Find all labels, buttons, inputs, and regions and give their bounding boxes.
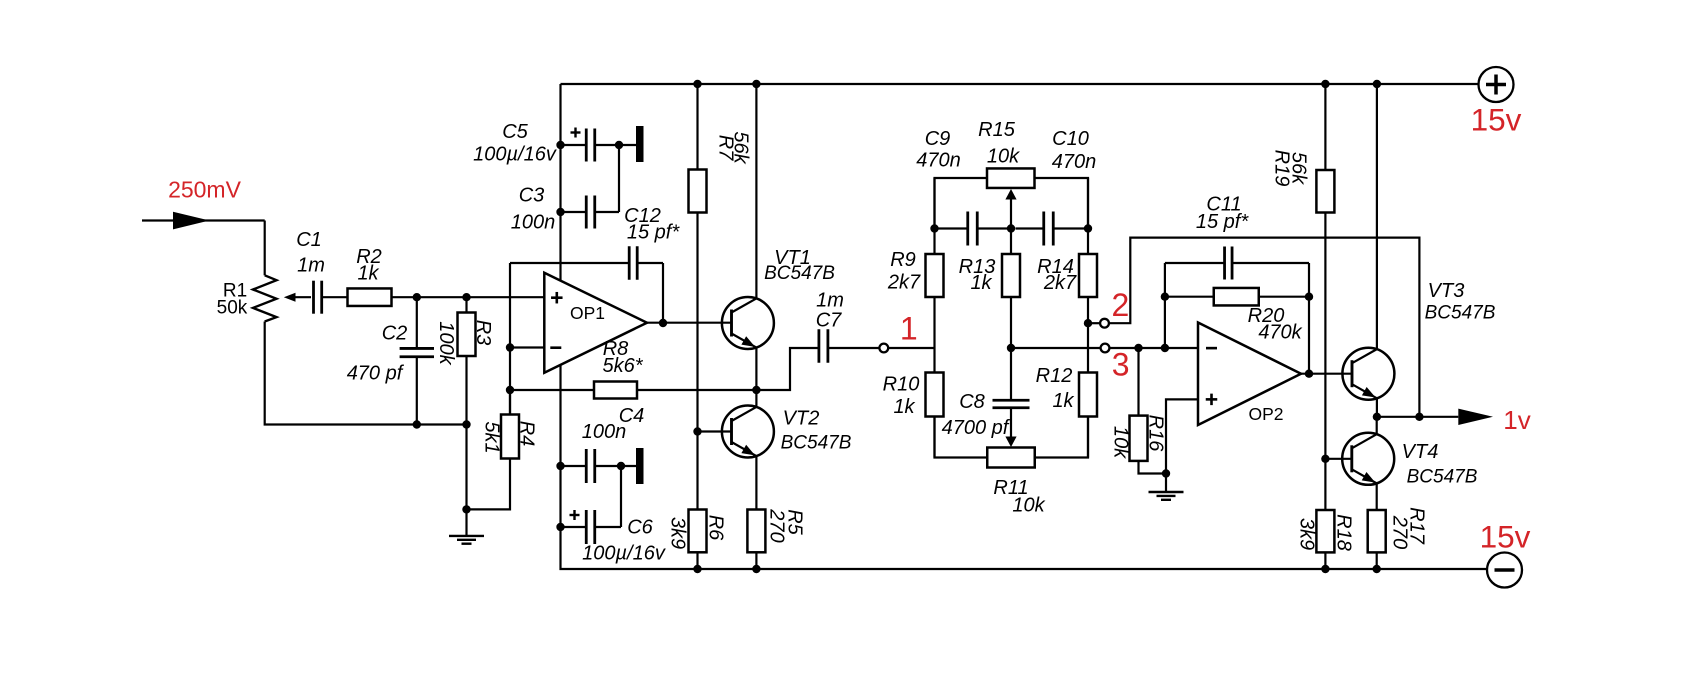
wire: C7 to node 1 <box>828 347 880 349</box>
svg-text:100µ/16v: 100µ/16v <box>473 144 557 166</box>
label 250mV input <box>168 177 242 203</box>
svg-text:470n: 470n <box>916 150 961 172</box>
label 10k (R11 value) <box>1012 495 1045 517</box>
resistor R9 <box>926 254 944 297</box>
label 100µ/16v (C5 value) <box>473 144 557 166</box>
svg-text:1m: 1m <box>816 290 844 312</box>
svg-text:OP1: OP1 <box>570 303 605 323</box>
label BC547B (VT3) <box>1425 303 1496 324</box>
resistor R6 <box>689 510 707 553</box>
label R12 <box>1036 365 1073 387</box>
junction (C5 right / chassis bar) <box>615 141 623 149</box>
svg-text:5k1: 5k1 <box>480 421 502 453</box>
label 470k (R20 value) <box>1258 322 1302 344</box>
svg-text:BC547B: BC547B <box>781 433 852 454</box>
label R2 <box>356 246 382 268</box>
potentiometer R15 <box>987 168 1035 228</box>
op-amp OP2 <box>1198 323 1301 426</box>
wire: node 1 to R9/R10 <box>888 347 934 349</box>
label 1k (R2 value) <box>357 263 379 285</box>
wire: C2 to ground rail <box>416 357 418 425</box>
label 3k9 (R18 value) <box>1295 518 1317 550</box>
svg-text:1v: 1v <box>1503 405 1530 435</box>
wire: VT1 collector <box>755 84 757 299</box>
wire: middle row center-left <box>977 227 1011 229</box>
capacitor C7 <box>819 329 828 363</box>
svg-text:R5: R5 <box>783 509 805 535</box>
junction (R19 / top rail) <box>1321 80 1329 88</box>
svg-text:2k7: 2k7 <box>1043 272 1077 294</box>
label 56k (R7 value) <box>729 131 751 164</box>
junction (R8 left) <box>506 386 514 394</box>
svg-text:3: 3 <box>1112 347 1130 383</box>
wire: R10 to R11 left <box>935 417 988 458</box>
junction (VT2 base) <box>693 427 701 435</box>
resistor R17 <box>1368 510 1386 552</box>
node terminal 1 (open circle) <box>879 344 888 353</box>
resistor R19 <box>1316 170 1334 213</box>
transistor VT4 <box>1342 433 1394 485</box>
junction (OP1 - input node) <box>506 343 514 351</box>
wire: middle row left <box>935 227 969 229</box>
wire: input to R1 top <box>264 221 266 276</box>
potentiometer R1 (zigzag) <box>253 275 277 321</box>
resistor R12 <box>1079 373 1097 417</box>
svg-text:C1: C1 <box>296 229 322 251</box>
svg-text:R3: R3 <box>472 320 494 346</box>
label R13 <box>959 256 996 278</box>
label 2k7 (R14 value) <box>1043 272 1077 294</box>
junction (OP2 ground node) <box>1162 469 1170 477</box>
wire: OP1 - input <box>510 346 544 348</box>
capacitor C1 <box>314 281 322 314</box>
potentiometer R11 <box>987 448 1035 468</box>
wire: R2 to OP1 + input <box>391 296 544 298</box>
wire: R16 branch <box>1137 348 1139 416</box>
junction (C4 left / V- line) <box>556 462 564 470</box>
svg-text:1k: 1k <box>357 263 379 285</box>
junction (C3 left) <box>556 208 564 216</box>
label 1k (R12 value) <box>1052 390 1074 412</box>
resistor R7 <box>689 170 707 213</box>
resistor R18 <box>1316 510 1334 552</box>
wire: R3 to ground node <box>465 356 467 509</box>
wire: middle row right <box>1053 227 1088 229</box>
input arrow <box>173 212 209 230</box>
junction (VT1 collector / top rail) <box>752 80 760 88</box>
wire: VT1 emitter to node <box>755 348 757 391</box>
label R8 <box>603 338 629 360</box>
label R10 <box>883 374 920 396</box>
junction (VT1 emitter / VT2 collector / R8 / C7) <box>752 386 760 394</box>
resistor R10 <box>926 373 944 417</box>
junction (R6 / bottom rail) <box>693 565 701 573</box>
junction (R13/C8 node on signal wire) <box>1007 344 1015 352</box>
wire: OP1 output to VT1 base <box>647 322 732 324</box>
label C12 <box>624 205 661 227</box>
label C10 <box>1052 128 1089 150</box>
svg-text:100n: 100n <box>582 421 627 443</box>
label 15v (negative supply) <box>1480 519 1531 555</box>
svg-text:BC547B: BC547B <box>764 263 835 284</box>
R1 wiper arrow <box>284 293 311 302</box>
svg-text:1k: 1k <box>893 396 915 418</box>
label OP1 <box>570 303 605 323</box>
resistor R3 <box>458 313 476 357</box>
wire: OP1 V+ supply line <box>559 84 561 281</box>
svg-text:VT2: VT2 <box>783 408 820 430</box>
wire: R13-C8 column <box>1010 229 1012 401</box>
label 2 (node number) <box>1112 287 1130 323</box>
label R15 <box>978 119 1016 141</box>
ground symbol (input stage) <box>449 509 484 543</box>
label C5 <box>502 121 528 143</box>
transistor VT2 <box>722 406 774 458</box>
svg-text:2: 2 <box>1112 287 1130 323</box>
label R4 <box>515 421 537 447</box>
chassis bar (top decoupling) <box>636 126 644 162</box>
ground symbol (OP2 stage) <box>1149 474 1184 500</box>
wire: R7-R6 vertical line <box>696 84 698 569</box>
junction (R17 / bottom rail) <box>1373 565 1381 573</box>
resistor R8 (feedback) <box>510 382 756 399</box>
label 100µ/16v (C6 value) <box>582 543 666 565</box>
svg-text:VT3: VT3 <box>1428 280 1465 302</box>
node terminal 2 (open circle) <box>1100 319 1109 328</box>
svg-text:C10: C10 <box>1052 128 1089 150</box>
label 470n (C10 value) <box>1052 151 1097 173</box>
wire: C5-C3 right link <box>618 145 620 212</box>
label 270 (R17 value) <box>1388 515 1410 549</box>
svg-text:C9: C9 <box>925 128 951 150</box>
label R18 <box>1332 514 1354 551</box>
label C2 <box>382 323 408 345</box>
wire: R16 bottom to ground node <box>1139 461 1167 474</box>
label R3 <box>472 320 494 346</box>
resistor R20 (feedback) <box>1165 288 1309 306</box>
label 1k (R10 value) <box>893 396 915 418</box>
label 270 (R5 value) <box>765 508 787 542</box>
svg-text:R17: R17 <box>1405 507 1427 545</box>
label VT4 <box>1402 441 1439 463</box>
label C7 <box>816 310 842 332</box>
junction (R18 / bottom rail) <box>1321 565 1329 573</box>
label C11 <box>1206 194 1241 216</box>
wire: VT2 emitter to R5 <box>755 456 757 510</box>
svg-text:VT4: VT4 <box>1402 441 1439 463</box>
wire: VT4 emitter to R17 <box>1376 483 1378 510</box>
junction (ground node) <box>462 505 470 513</box>
svg-text:470k: 470k <box>1258 322 1302 344</box>
wire: R4 branch <box>509 390 511 415</box>
wire: R9-R10 column <box>933 178 935 458</box>
wire: emitter node to C7 <box>756 348 819 390</box>
label R14 <box>1037 256 1074 278</box>
junction (R7 / top rail) <box>693 80 701 88</box>
node terminal 3 (open circle) <box>1101 344 1110 353</box>
svg-text:50k: 50k <box>217 298 248 319</box>
wire: node 3 to OP2 - input <box>1109 347 1198 349</box>
wire: feedback right riser <box>1308 263 1310 374</box>
junction (R5 / bottom rail) <box>752 565 760 573</box>
label 15 pf* (C12 value) <box>627 222 680 244</box>
junction (R3 top) <box>462 293 470 301</box>
label 1m (C1 value) <box>297 255 325 277</box>
wire: feedback left riser <box>1164 263 1166 348</box>
wire: input line <box>142 219 265 221</box>
wire: VT3 emitter <box>1376 398 1378 417</box>
capacitor C4 <box>561 449 637 483</box>
label 470 pf (C2 value) <box>347 363 405 385</box>
power terminal +15v <box>1479 67 1514 102</box>
svg-text:R9: R9 <box>890 249 916 271</box>
svg-text:C2: C2 <box>382 323 408 345</box>
label R17 <box>1405 507 1427 545</box>
wire: VT2 base <box>698 430 732 432</box>
svg-text:R12: R12 <box>1036 365 1073 387</box>
label R1 <box>223 281 247 302</box>
svg-text:R18: R18 <box>1332 514 1354 551</box>
junction (R20 left) <box>1161 293 1169 301</box>
junction (node 2 stub) <box>1084 319 1092 327</box>
label R5 <box>783 509 805 535</box>
svg-text:R16: R16 <box>1144 415 1166 453</box>
wire: middle row center-right <box>1016 227 1045 229</box>
svg-text:1: 1 <box>900 311 918 347</box>
transistor VT3 <box>1342 348 1394 400</box>
capacitor C6 (electrolytic) <box>561 510 622 544</box>
label 470n (C9 value) <box>916 150 961 172</box>
wire: signal to node 3 <box>1011 347 1101 349</box>
chassis bar (bottom decoupling) <box>636 448 644 484</box>
junction (C4 right / chassis bar) <box>617 462 625 470</box>
wire: C8 to R11 wiper <box>1005 408 1016 447</box>
label 1k (R13 value) <box>970 272 992 294</box>
svg-text:1m: 1m <box>297 255 325 277</box>
output arrow <box>1458 409 1493 425</box>
wire: node 2 to output feedback line <box>1109 238 1420 417</box>
label 15 pf* (C11 value) <box>1196 211 1249 233</box>
svg-text:100n: 100n <box>511 212 556 234</box>
capacitor C3 <box>561 196 620 229</box>
junction (R3 line / ground rail) <box>462 420 470 428</box>
wire: R15 to C10 column <box>1035 178 1089 229</box>
label 100n (C3 value) <box>511 212 556 234</box>
label VT3 <box>1428 280 1465 302</box>
svg-text:10k: 10k <box>1109 426 1131 459</box>
capacitor C2 <box>400 348 434 356</box>
svg-text:3k9: 3k9 <box>1295 518 1317 550</box>
svg-text:C7: C7 <box>816 310 842 332</box>
svg-text:100µ/16v: 100µ/16v <box>582 543 666 565</box>
wire: R12 to R11 right <box>1035 417 1089 458</box>
svg-text:C6: C6 <box>627 517 653 539</box>
capacitor C12 (feedback) <box>510 246 663 323</box>
svg-text:C5: C5 <box>502 121 528 143</box>
label 5k6* (R8 value) <box>602 355 643 377</box>
junction (feedback left) <box>1161 344 1169 352</box>
label BC547B (VT2) <box>781 433 852 454</box>
junction (VT4 base) <box>1321 455 1329 463</box>
capacitor C5 (electrolytic) <box>561 128 637 162</box>
svg-text:1k: 1k <box>1052 390 1074 412</box>
label VT2 <box>783 408 820 430</box>
label 10k (R16 value) <box>1109 426 1131 459</box>
resistor R16 <box>1130 416 1148 461</box>
label BC547B (VT1) <box>764 263 835 284</box>
wire: output node <box>1377 416 1458 418</box>
svg-text:2k7: 2k7 <box>887 272 921 294</box>
wire: R3 branch <box>465 297 467 312</box>
svg-text:R15: R15 <box>978 119 1016 141</box>
wire: R9 top to R15 row <box>935 178 988 229</box>
svg-text:15v: 15v <box>1471 102 1522 138</box>
power terminal -15v <box>1487 553 1522 588</box>
label C8 <box>959 391 985 413</box>
label R20 <box>1248 305 1285 327</box>
wire: C4-C6 right link <box>620 466 622 527</box>
label 3 (node number) <box>1112 347 1130 383</box>
label 15v (positive supply) <box>1471 102 1522 138</box>
label 1 (node number) <box>900 311 918 347</box>
op-amp OP1 <box>544 273 647 373</box>
wire: C2 branch <box>416 297 418 348</box>
label C3 <box>519 185 545 207</box>
label C4 <box>619 405 645 427</box>
label 5k1 (R4 value) <box>480 421 502 453</box>
label 4700 pf (C8 value) <box>942 417 1011 439</box>
label R19 <box>1270 150 1292 187</box>
junction (OP1 output / C12) <box>659 319 667 327</box>
svg-text:15 pf*: 15 pf* <box>1196 211 1249 233</box>
junction (OP2 output / feedback) <box>1305 370 1313 378</box>
wire: R1 bottom to ground rail <box>265 322 467 425</box>
label R9 <box>890 249 916 271</box>
svg-text:R6: R6 <box>704 515 726 541</box>
wire: +15v top rail <box>561 83 1479 85</box>
label 1v (output) <box>1503 405 1530 435</box>
resistor R4 <box>501 415 519 459</box>
wire: R19-R18 column <box>1324 84 1326 569</box>
junction (feedback tap on output) <box>1415 413 1423 421</box>
label OP2 <box>1248 404 1283 424</box>
label BC547B (VT4) <box>1407 467 1478 488</box>
svg-text:1k: 1k <box>970 272 992 294</box>
wire: VT4 base <box>1325 458 1351 460</box>
junction (R16 top) <box>1134 344 1142 352</box>
wire: VT4 collector <box>1376 417 1378 435</box>
svg-text:10k: 10k <box>1012 495 1045 517</box>
svg-text:4700 pf: 4700 pf <box>942 417 1011 439</box>
label C1 <box>296 229 322 251</box>
wire: R4 bottom to ground node <box>467 459 511 510</box>
wire: C1 to R2 <box>323 296 349 298</box>
svg-text:BC547B: BC547B <box>1425 303 1496 324</box>
label 100k (R3 value) <box>435 321 457 365</box>
wire: -15v bottom rail <box>561 365 1488 569</box>
svg-text:15v: 15v <box>1480 519 1531 555</box>
label 3k9 (R6 value) <box>666 517 688 549</box>
svg-text:3k9: 3k9 <box>666 517 688 549</box>
svg-text:470 pf: 470 pf <box>347 363 405 385</box>
label R11 <box>993 477 1028 499</box>
svg-text:470n: 470n <box>1052 151 1097 173</box>
junction (C6 left / V- line) <box>556 523 564 531</box>
label C6 <box>627 517 653 539</box>
resistor R5 <box>747 510 765 553</box>
label 56k (R19 value) <box>1287 152 1309 185</box>
resistor R13 <box>1002 254 1020 297</box>
label 2k7 (R9 value) <box>887 272 921 294</box>
wire: node 2 stub <box>1088 322 1100 324</box>
label R7 <box>714 135 736 161</box>
svg-text:BC547B: BC547B <box>1407 467 1478 488</box>
svg-text:R10: R10 <box>883 374 920 396</box>
label R6 <box>704 515 726 541</box>
capacitor C9 <box>968 212 978 246</box>
label C9 <box>925 128 951 150</box>
capacitor C8 <box>993 400 1030 408</box>
wire: VT3 collector <box>1376 84 1378 349</box>
svg-text:10k: 10k <box>987 146 1020 168</box>
junction (C2 top) <box>413 293 421 301</box>
wire: R17 to rail <box>1376 552 1378 569</box>
label 10k (R15 value) <box>987 146 1020 168</box>
svg-text:C3: C3 <box>519 185 545 207</box>
transistor VT1 <box>722 297 774 349</box>
junction (mid row right) <box>1084 224 1092 232</box>
svg-text:56k: 56k <box>729 131 751 164</box>
svg-text:15 pf*: 15 pf* <box>627 222 680 244</box>
junction (output node) <box>1373 413 1381 421</box>
svg-text:C8: C8 <box>959 391 985 413</box>
resistor R14 <box>1079 254 1097 297</box>
junction (mid row center) <box>1007 224 1015 232</box>
svg-text:100k: 100k <box>435 321 457 365</box>
junction (C5 left) <box>556 141 564 149</box>
label 1m (C7 value) <box>816 290 844 312</box>
svg-text:OP2: OP2 <box>1248 404 1283 424</box>
label 100n (C4 value) <box>582 421 627 443</box>
wire: OP2 output to VT3 base <box>1301 373 1352 375</box>
resistor R2 <box>348 288 392 306</box>
svg-text:5k6*: 5k6* <box>602 355 643 377</box>
junction (VT3 collector / top rail) <box>1373 80 1381 88</box>
junction (R20 right) <box>1305 293 1313 301</box>
label R16 <box>1144 415 1166 453</box>
wire: OP2 + input riser <box>1166 399 1198 473</box>
junction (C2 bottom / ground rail) <box>413 420 421 428</box>
capacitor C10 <box>1044 212 1054 246</box>
label 50k <box>217 298 248 319</box>
capacitor C11 (feedback) <box>1165 247 1309 280</box>
wire: R14-R12 column <box>1087 178 1089 458</box>
svg-text:250mV: 250mV <box>168 177 242 203</box>
junction (mid row left) <box>930 224 938 232</box>
label VT1 <box>774 247 811 269</box>
wire: VT2 collector <box>755 390 757 407</box>
wire: C12 / R8 / R4 vertical line <box>509 263 511 415</box>
wire: R5 to rail <box>755 552 757 569</box>
svg-text:R4: R4 <box>515 421 537 447</box>
svg-text:56k: 56k <box>1287 152 1309 185</box>
